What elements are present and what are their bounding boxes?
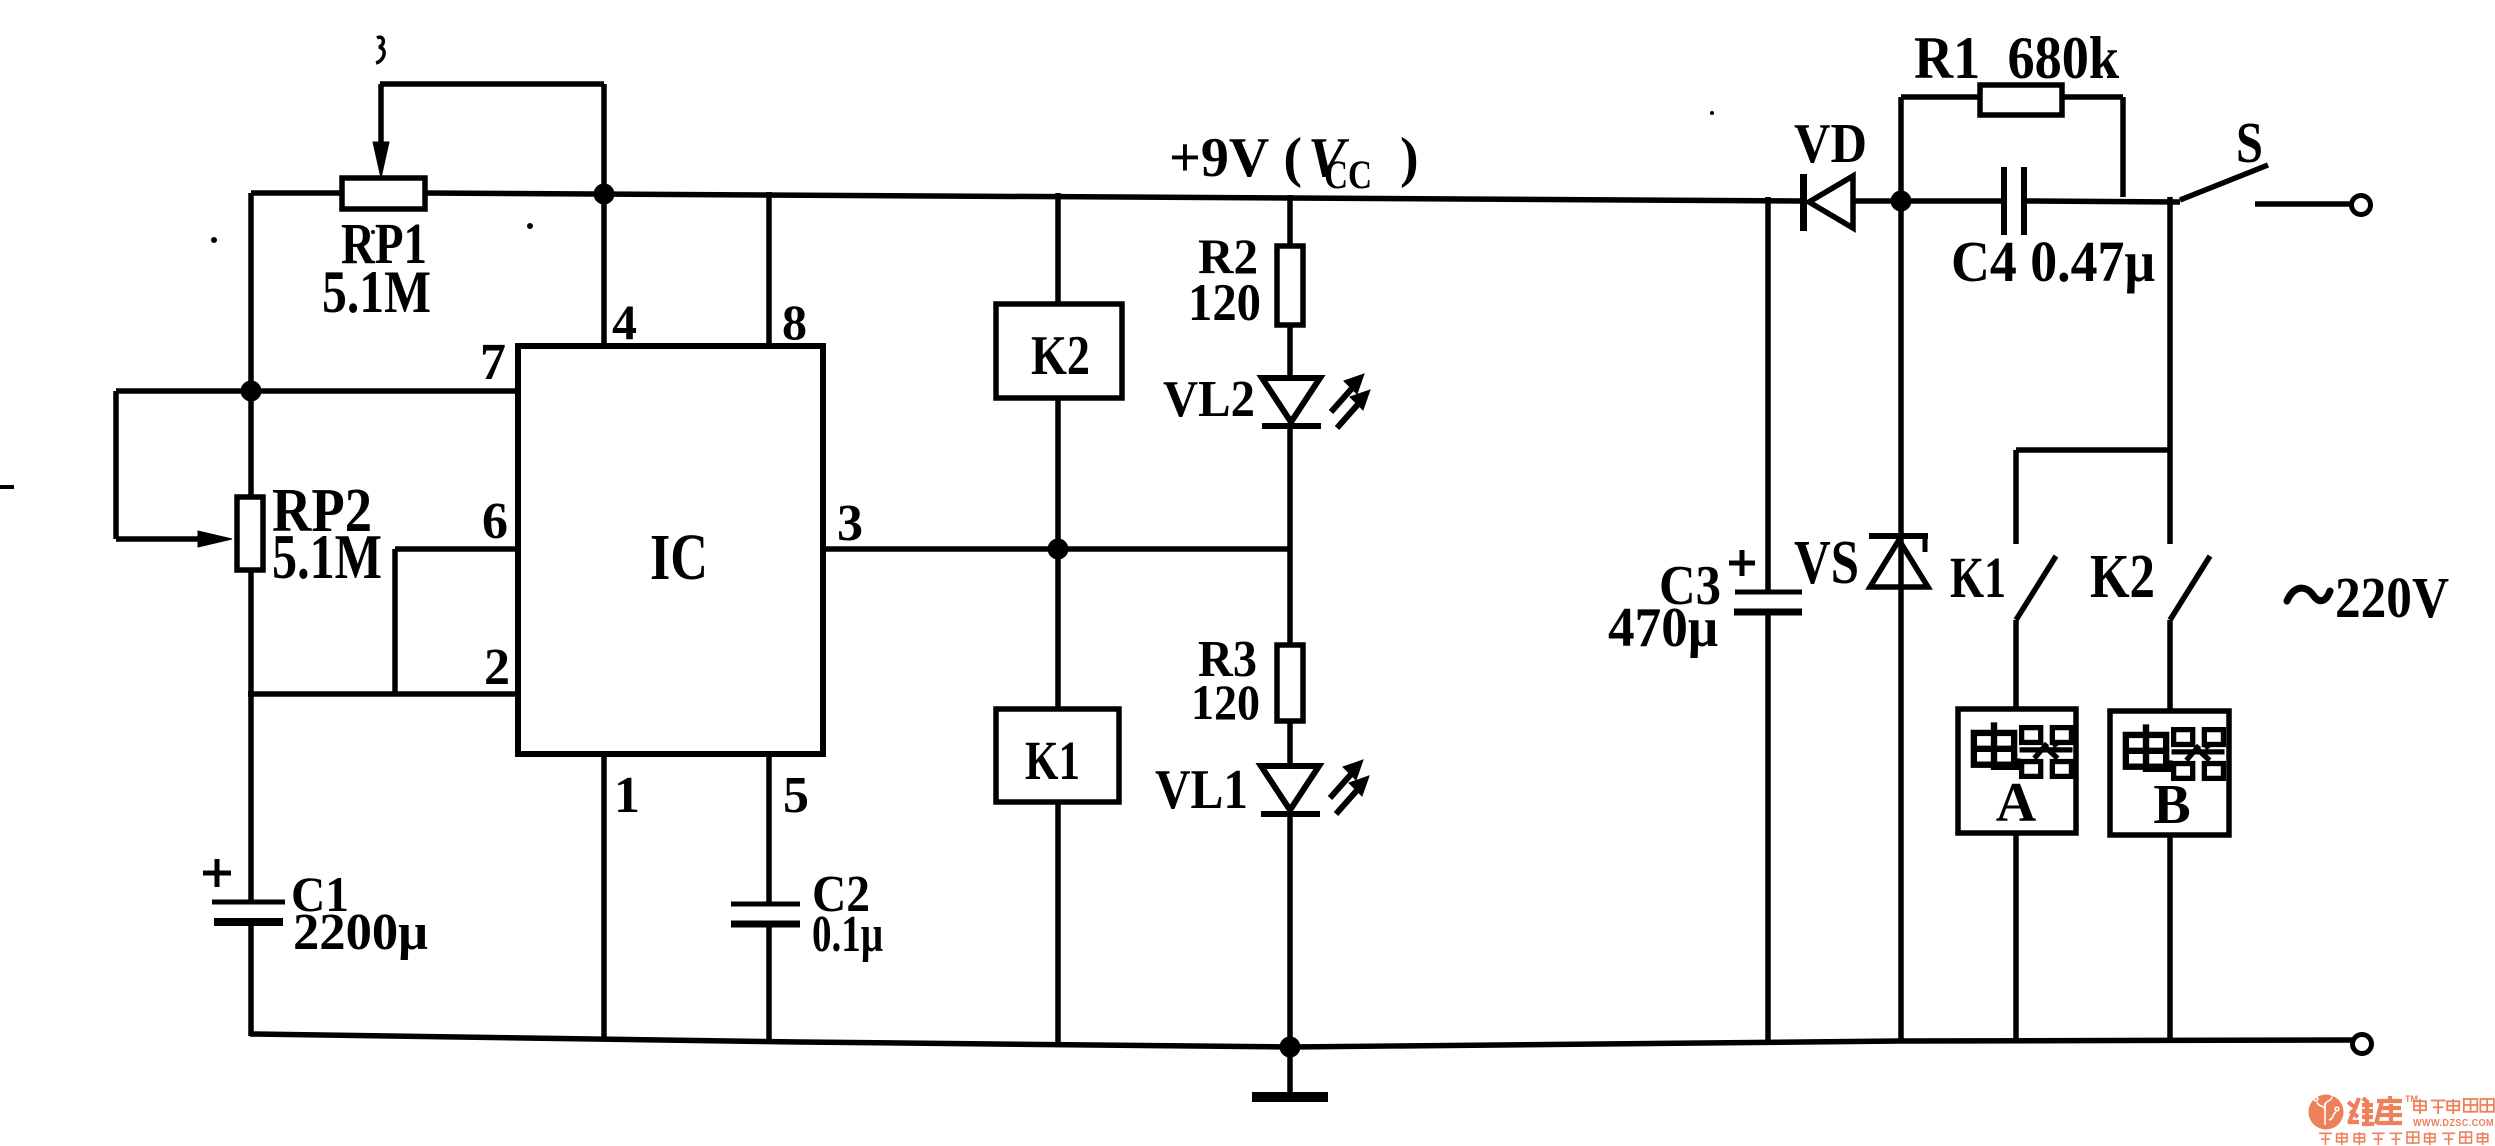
- svg-text:5.1M: 5.1M: [272, 522, 382, 592]
- svg-text:2: 2: [484, 639, 510, 696]
- svg-text:0.1μ: 0.1μ: [812, 906, 883, 963]
- svg-text:B: B: [2153, 774, 2190, 836]
- svg-text:VS: VS: [1794, 529, 1859, 597]
- svg-text:3: 3: [837, 495, 863, 552]
- svg-text:): ): [1400, 127, 1419, 189]
- svg-text:5.1M: 5.1M: [322, 259, 431, 325]
- svg-text:K1: K1: [1950, 545, 2006, 610]
- svg-text:120: 120: [1188, 274, 1261, 332]
- svg-text:K2: K2: [1031, 325, 1090, 387]
- svg-text:A: A: [1996, 772, 2037, 834]
- svg-text:7: 7: [480, 334, 506, 391]
- svg-text:VD: VD: [1794, 113, 1867, 175]
- svg-text:120: 120: [1191, 674, 1260, 730]
- svg-text:WWW.DZSC.COM: WWW.DZSC.COM: [2413, 1118, 2494, 1129]
- svg-text:K2: K2: [2090, 543, 2155, 611]
- svg-text:VL2: VL2: [1163, 371, 1255, 428]
- svg-text:C4 0.47μ: C4 0.47μ: [1951, 229, 2155, 294]
- svg-text:+9V (: +9V (: [1169, 127, 1302, 189]
- svg-text:1: 1: [614, 767, 640, 824]
- svg-text:220V: 220V: [2335, 565, 2449, 630]
- svg-text:TM: TM: [2405, 1094, 2418, 1104]
- svg-text:2200μ: 2200μ: [293, 904, 428, 961]
- svg-text:8: 8: [782, 294, 807, 350]
- svg-text:IC: IC: [650, 521, 708, 594]
- svg-text:5: 5: [783, 767, 809, 824]
- svg-text:S: S: [2236, 110, 2263, 175]
- svg-text:6: 6: [482, 493, 508, 550]
- svg-text:R1 680k: R1 680k: [1914, 25, 2120, 91]
- svg-text:470μ: 470μ: [1608, 597, 1718, 659]
- svg-text:VL1: VL1: [1155, 759, 1248, 821]
- svg-text:CC: CC: [1324, 152, 1372, 197]
- svg-text:K1: K1: [1025, 730, 1080, 791]
- svg-text:4: 4: [612, 294, 637, 350]
